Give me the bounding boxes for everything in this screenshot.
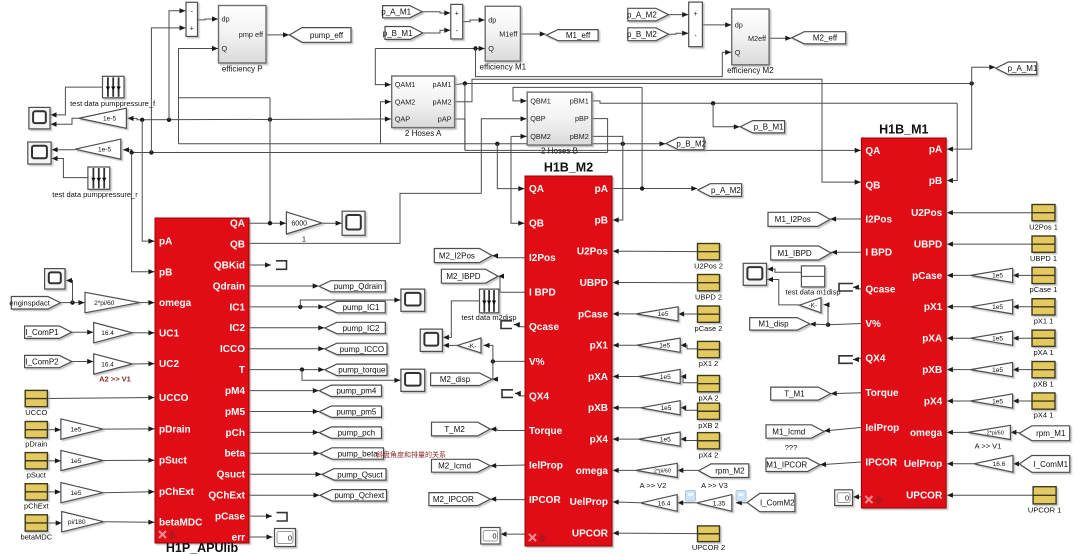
from enginspdact: [9, 297, 60, 310]
wire test data r to scope: [52, 156, 88, 178]
wire gain to pX1 M2: [613, 343, 637, 348]
svg-text:I_ComP1: I_ComP1: [25, 328, 59, 337]
constant UPCOR 1: [1033, 487, 1056, 504]
svg-text:A >> V3: A >> V3: [701, 481, 728, 490]
goto M2_Icmd: [432, 459, 491, 472]
svg-text:Q: Q: [222, 44, 228, 53]
svg-text:16.4: 16.4: [658, 500, 671, 507]
svg-text:Torque: Torque: [865, 388, 899, 399]
subsystem efficiency M1: [485, 6, 520, 61]
svg-text:pXA 1: pXA 1: [1033, 348, 1053, 357]
svg-text:6000: 6000: [291, 220, 307, 227]
svg-text:Qdrain: Qdrain: [213, 281, 245, 292]
gain 1e5 pX1 M2: [637, 338, 681, 352]
constant pCase 2: [698, 306, 720, 322]
svg-text:Qsuct: Qsuct: [217, 470, 246, 481]
gain 2*pi/60 M2: [636, 463, 678, 477]
svg-text:p_B_M1: p_B_M1: [754, 123, 784, 132]
scope IC1: [401, 289, 425, 311]
svg-text:V%: V%: [865, 319, 881, 330]
junction to QA M2: [495, 142, 499, 146]
svg-text:QB: QB: [865, 180, 880, 191]
svg-text:M2_eff: M2_eff: [813, 34, 838, 43]
svg-text:1e-5: 1e-5: [103, 116, 116, 123]
wire to goto M2_disp: [492, 361, 498, 381]
wire pXA 2 to gain: [680, 374, 697, 383]
badge signal conversion 2: [736, 491, 746, 502]
svg-text:pAM1: pAM1: [433, 80, 452, 89]
wire rpm_M2 to gain: [677, 468, 698, 473]
wire I_ComP1 to gain: [72, 330, 93, 335]
junction V percent M1: [826, 323, 830, 327]
svg-text:QBM2: QBM2: [530, 132, 551, 141]
scope pump pressure f: [29, 107, 50, 128]
svg-text:M1_Icmd: M1_Icmd: [772, 427, 805, 436]
svg-text:rpm_M1: rpm_M1: [1036, 429, 1066, 438]
constant pCase 1: [1032, 267, 1055, 283]
junction pA-net: [140, 118, 144, 122]
wire to Q of efficiency M1: [375, 48, 477, 50]
gain 1e5 pX4 M2: [639, 432, 681, 446]
svg-text:M1_IPCOR: M1_IPCOR: [766, 461, 807, 470]
junction V percent M2: [491, 359, 495, 363]
wire to sum minus: [169, 8, 186, 120]
svg-text:Q: Q: [735, 48, 741, 57]
wire err to display M1: [853, 494, 861, 499]
terminator QX4 M1: [839, 356, 853, 364]
svg-text:betaMDC: betaMDC: [159, 518, 202, 529]
svg-text:pXB 1: pXB 1: [1033, 379, 1053, 388]
svg-text:+: +: [190, 25, 194, 32]
svg-text:+: +: [694, 11, 698, 18]
wire pB-net horizontal: [132, 152, 608, 154]
display err pump: [275, 529, 296, 547]
wire m1disp to scope: [767, 267, 801, 273]
wire -K- to scope M1: [767, 277, 800, 305]
display err M2: [481, 528, 500, 545]
wire pX1 1 to gain: [1013, 304, 1032, 309]
svg-text:pump_beta: pump_beta: [338, 449, 379, 458]
svg-text:pX1: pX1: [590, 341, 609, 352]
gain 1e5 pSuct: [61, 450, 103, 470]
wire T to scope: [302, 370, 400, 383]
wire I_ComP2 to gain: [72, 359, 93, 364]
svg-text:dp: dp: [222, 15, 230, 24]
svg-text:M1_IBPD: M1_IBPD: [777, 249, 811, 258]
svg-text:pM5: pM5: [225, 407, 245, 418]
wire V percent M1: [828, 324, 861, 325]
wire gain to pDrain: [103, 426, 154, 431]
goto pump_pch: [319, 427, 381, 438]
svg-text:1e5: 1e5: [71, 426, 82, 433]
wire U2Pos 1 to port: [947, 210, 1032, 215]
scope engine speed: [45, 269, 65, 289]
goto T_M2: [432, 422, 491, 436]
wire pBM1 long: [592, 101, 957, 103]
svg-text:pChExt: pChExt: [24, 502, 50, 511]
goto pump_Qsuct: [322, 469, 386, 480]
svg-text:M2_IBPD: M2_IBPD: [446, 272, 480, 281]
wire gain to UC2: [132, 361, 154, 366]
gain -K- M2: [457, 338, 481, 353]
wire pChExt const to gain: [47, 489, 61, 494]
terminator pCase: [277, 513, 288, 521]
svg-text:2 Hoses A: 2 Hoses A: [405, 129, 442, 138]
svg-text:pX4 2: pX4 2: [699, 450, 719, 459]
gain 1.35 M2: [697, 495, 732, 512]
junction QA: [268, 221, 272, 225]
svg-text:QB: QB: [529, 219, 544, 230]
svg-text:UBPD: UBPD: [580, 278, 608, 289]
gain 6000: [286, 212, 321, 234]
scope torque: [401, 369, 425, 391]
gain 16.4 M2: [641, 495, 678, 512]
svg-text:2*pi/60: 2*pi/60: [94, 300, 115, 307]
svg-text:QAM2: QAM2: [395, 97, 416, 106]
svg-text:pB: pB: [595, 215, 608, 226]
from p_A_M2: [627, 8, 668, 21]
svg-text:IC1: IC1: [229, 302, 245, 313]
terminator Qcase M2: [501, 321, 512, 329]
goto pump_IC2: [325, 322, 386, 333]
gain pi/180 betaMDC: [62, 512, 104, 532]
wire pBP down to pB net: [592, 119, 608, 153]
gain 16.4 UC2: [94, 354, 133, 374]
svg-text:pXB: pXB: [588, 403, 608, 414]
svg-text:QX4: QX4: [865, 354, 885, 365]
wire into QB of H1B_M2: [511, 136, 524, 225]
sum block M2 efficiency: [689, 2, 703, 47]
goto M1_IPCOR: [766, 458, 820, 471]
svg-text:T_M1: T_M1: [784, 389, 805, 398]
svg-text:p_A_M2: p_A_M2: [627, 10, 657, 19]
wire Torque to goto T_M2: [490, 427, 525, 432]
subsystem 2 Hoses B: [527, 92, 592, 145]
svg-text:UC1: UC1: [159, 328, 179, 339]
constant pSuct: [25, 453, 47, 469]
svg-text:UPCOR: UPCOR: [906, 491, 943, 502]
wire betaMDC const to gain: [47, 520, 61, 525]
svg-text:pCase: pCase: [215, 512, 245, 523]
svg-text:1e5: 1e5: [992, 367, 1003, 374]
wire into gain 1e-5 f: [128, 116, 143, 121]
wire err to display M2: [501, 532, 526, 537]
goto pump_beta: [320, 448, 384, 459]
wire to goto p_B_M1: [713, 103, 740, 129]
svg-text:IelProp: IelProp: [865, 423, 899, 434]
wire Qdrain to goto: [249, 283, 319, 288]
gain 1e-5 forward: [79, 108, 127, 128]
constant pXB 2: [698, 403, 720, 419]
svg-text:0: 0: [288, 533, 292, 542]
svg-text:QA: QA: [529, 184, 544, 195]
goto M2_I2Pos: [434, 249, 492, 263]
wire gain 6000 to scope: [322, 221, 342, 226]
constant U2Pos 1: [1032, 205, 1055, 221]
wire test data f to scope: [51, 87, 103, 117]
svg-text:rpm_M2: rpm_M2: [715, 467, 745, 476]
svg-text:pXB: pXB: [922, 365, 942, 376]
svg-text:Qcase: Qcase: [529, 322, 559, 333]
wire to gain -K- M1: [824, 302, 830, 325]
gain -K- M1: [800, 298, 822, 313]
svg-text:pump_Qdrain: pump_Qdrain: [334, 282, 382, 291]
from rpm_M2: [699, 464, 749, 478]
constant pXB 1: [1032, 362, 1055, 378]
wire pmp eff to goto pump_eff: [266, 32, 289, 37]
svg-text:pCase: pCase: [912, 271, 942, 282]
wire gain to betaMDC: [104, 520, 155, 525]
svg-text:T: T: [239, 365, 245, 376]
wire Qsuct to goto: [249, 472, 322, 477]
svg-text:pmp eff: pmp eff: [239, 30, 264, 39]
svg-text:p_A_M1: p_A_M1: [381, 8, 411, 17]
wire QB of pump: [249, 193, 481, 243]
svg-text:pX4: pX4: [924, 396, 943, 407]
svg-text:pA: pA: [159, 236, 172, 247]
svg-text:M1_disp: M1_disp: [758, 320, 789, 329]
wire T to goto: [249, 367, 324, 372]
constant UCCO: [25, 390, 47, 406]
wire 16.4 to UelProp M2: [613, 500, 641, 505]
wire into QA of H1B_M2: [497, 144, 524, 191]
terminator QBKid: [276, 261, 287, 270]
svg-text:pChExt: pChExt: [159, 487, 195, 498]
gain 2*pi/60 M1: [968, 425, 1011, 439]
sum block pump efficiency: [186, 2, 198, 36]
wire Qcase to terminator M2: [514, 322, 525, 327]
wire QX4 to terminator M1: [853, 357, 862, 362]
wire UBPD 2 to port: [613, 280, 698, 285]
svg-text:UPCOR 2: UPCOR 2: [692, 543, 725, 552]
wire gain to pX4 M2: [613, 437, 639, 442]
subsystem H1B_M1: [861, 138, 946, 508]
svg-text:I_ComM2: I_ComM2: [760, 498, 795, 507]
wire pXA 1 to gain: [1013, 336, 1032, 341]
wire gain to UelProp M1: [947, 461, 974, 466]
wire into gain 1e-5 r: [123, 147, 132, 152]
from I_ComM2: [747, 493, 795, 511]
wire pXB 2 to gain: [680, 405, 697, 410]
svg-text:2 Hoses B: 2 Hoses B: [541, 146, 578, 155]
wire to gain -K- M2: [484, 343, 493, 362]
subsystem H1B_M2: [525, 176, 612, 546]
svg-text:pDrain: pDrain: [159, 424, 191, 435]
svg-text:pBM1: pBM1: [570, 97, 589, 106]
wire to sum plus: [151, 25, 185, 152]
wire IC1 to scope: [300, 297, 400, 307]
svg-text:U2Pos: U2Pos: [577, 247, 609, 258]
svg-text:pX1: pX1: [924, 302, 943, 313]
gain 1e5 pXA M1: [970, 331, 1012, 345]
wire gain 1e-5 r to scope: [52, 147, 76, 152]
svg-text:M2_I2Pos: M2_I2Pos: [439, 251, 475, 260]
svg-text:M2_Icmd: M2_Icmd: [438, 462, 471, 471]
svg-text:1.35: 1.35: [713, 500, 726, 507]
wire pA-net to QAP: [142, 116, 391, 121]
wire pA drop: [142, 120, 154, 244]
constant betaMDC: [25, 515, 47, 531]
wire QChExt to goto: [249, 493, 320, 498]
svg-text:H1B_M1: H1B_M1: [879, 123, 928, 137]
svg-text:pSuct: pSuct: [159, 456, 187, 467]
wire gain to omega M1: [947, 430, 968, 435]
svg-text:斜盘角度和排量的关系: 斜盘角度和排量的关系: [376, 450, 446, 459]
goto T_M1: [771, 387, 831, 400]
constant pX1 2: [698, 341, 720, 357]
svg-text:T_M2: T_M2: [444, 425, 465, 434]
svg-text:1e5: 1e5: [992, 304, 1003, 311]
svg-text:pA: pA: [595, 184, 608, 195]
goto pump_pm5: [319, 406, 381, 417]
svg-text:pump_IC2: pump_IC2: [343, 324, 380, 333]
wire to goto M1_disp: [810, 322, 828, 327]
wire beta to goto: [249, 451, 320, 456]
junction pA-net 2: [167, 118, 171, 122]
svg-text:UelProp: UelProp: [570, 497, 608, 508]
wire pX4 2 to gain: [680, 437, 697, 442]
svg-text:IPCOR: IPCOR: [865, 457, 897, 468]
svg-text:pB: pB: [929, 176, 942, 187]
svg-text:ICCO: ICCO: [220, 344, 245, 355]
svg-text:A >> V1: A >> V1: [975, 442, 1002, 451]
svg-text:test data pumppressure_f: test data pumppressure_f: [70, 99, 156, 108]
wire Qcase to terminator M1: [853, 285, 862, 290]
svg-text:pXA: pXA: [922, 334, 942, 345]
from I_ComP2: [25, 355, 72, 367]
wire pCase 2 to gain: [678, 311, 697, 316]
from p_B_M1: [383, 27, 423, 40]
wire pCase to terminator: [249, 514, 272, 519]
from-file test data m2disp: [480, 289, 499, 313]
constant UBPD 1: [1032, 236, 1055, 252]
wire UPCOR 1 to port: [947, 493, 1033, 498]
wire QX4 to terminator M2: [515, 391, 525, 396]
svg-text:1e5: 1e5: [992, 336, 1003, 343]
wire QBKid to terminator: [249, 262, 271, 267]
wire vertical x178: [178, 98, 180, 144]
svg-text:I BPD: I BPD: [865, 248, 892, 259]
wire I_ComM2 to gain 1.35: [736, 500, 747, 505]
wire gain to pXB M1: [947, 367, 971, 372]
svg-text:M2_IPCOR: M2_IPCOR: [433, 495, 474, 504]
svg-text:2*pi/60: 2*pi/60: [654, 468, 671, 474]
wire pAM1 long: [455, 84, 972, 85]
svg-text:M2eff: M2eff: [748, 34, 767, 43]
svg-text:pump_Qchext: pump_Qchext: [334, 491, 385, 500]
svg-text:p_A_M1: p_A_M1: [1008, 64, 1038, 73]
svg-text:pump_pch: pump_pch: [338, 428, 375, 437]
wire into QAM2: [381, 99, 391, 144]
wire gain to pXB M2: [613, 405, 641, 410]
svg-text:QX4: QX4: [529, 391, 549, 402]
subsystem 2 Hoses A: [392, 76, 455, 128]
wire I2Pos to goto M2_I2Pos: [492, 253, 525, 258]
wire gain to pCase M1: [947, 273, 971, 278]
goto M1_eff: [546, 30, 598, 41]
goto M2_eff: [792, 32, 846, 44]
svg-text:UelProp: UelProp: [904, 459, 942, 470]
gain 1e5 pX4 M1: [970, 394, 1012, 408]
wire pBM2 to pB of H1B_M2: [592, 136, 623, 222]
wire QB to QBP of 2 Hoses B: [481, 116, 526, 193]
gain 1e5 pChExt: [61, 483, 103, 503]
svg-text:M1_I2Pos: M1_I2Pos: [775, 215, 811, 224]
svg-text:efficiency M1: efficiency M1: [480, 62, 527, 71]
wire to pB of H1B_M1: [947, 103, 957, 183]
constant pX4 1: [1032, 393, 1055, 409]
junction pAM1 drop: [463, 81, 467, 85]
junction pBM1: [711, 101, 715, 105]
scope QA: [342, 211, 365, 235]
scope pump pressure r: [28, 142, 51, 164]
svg-text:IelProp: IelProp: [529, 460, 563, 471]
gain 1e5 pX1 M1: [970, 300, 1012, 314]
svg-text:pCase: pCase: [578, 309, 608, 320]
wire -K- to scope M2: [443, 343, 457, 348]
goto pump_ICCO: [325, 343, 387, 354]
svg-text:1e-5: 1e-5: [98, 146, 111, 153]
wire IPCOR to goto M2_IPCOR: [490, 497, 525, 502]
wire p_B_M2 to sum: [669, 31, 689, 36]
svg-text:QChExt: QChExt: [208, 491, 245, 502]
svg-text:pX1 1: pX1 1: [1034, 317, 1054, 326]
from p_A_M1: [381, 6, 422, 18]
svg-text:pB: pB: [159, 268, 172, 279]
wire pB drop: [132, 153, 155, 275]
wire UPCOR 2 to port: [613, 531, 698, 536]
wire gain to omega: [140, 300, 155, 305]
svg-text:beta: beta: [224, 449, 245, 460]
wire gain to pChExt: [103, 489, 154, 494]
wire I2Pos to goto M1_I2Pos: [830, 216, 861, 221]
svg-text:UCCO: UCCO: [25, 408, 47, 417]
svg-text:I_ComP2: I_ComP2: [25, 357, 59, 366]
svg-text:16.4: 16.4: [101, 361, 114, 368]
svg-text:efficiency M2: efficiency M2: [727, 66, 774, 75]
wire arrow Q effM1: [471, 46, 485, 51]
wire into QBM1: [513, 87, 642, 103]
subsystem efficiency M2: [732, 9, 769, 65]
from-file test data pumppressure_f: [103, 76, 125, 98]
wire gain to pX4 M1: [947, 398, 971, 403]
svg-text:I2Pos: I2Pos: [865, 214, 892, 225]
goto M1_IBPD: [771, 246, 831, 260]
gain 1e5 pXA M2: [639, 369, 681, 383]
wire sum to dp efficiency M1: [463, 17, 485, 22]
gain 1e5 pXB M2: [641, 401, 681, 415]
wire pX4 1 to gain: [1013, 398, 1032, 403]
goto pump_IC1: [325, 301, 386, 312]
svg-text:pCase 1: pCase 1: [1030, 285, 1058, 294]
svg-text:1e5: 1e5: [992, 273, 1003, 280]
svg-text:QBKid: QBKid: [214, 260, 245, 271]
wire pM5 to goto: [249, 409, 319, 414]
terminator QX4 M2: [502, 390, 513, 398]
wire QA to Q of efficiency P: [179, 46, 271, 98]
wire pAM2 to QB of H1B_M1: [455, 79, 861, 184]
wire M1eff to goto M1_eff: [520, 31, 545, 36]
svg-text:pump_pm4: pump_pm4: [336, 387, 377, 396]
junction pA M2: [640, 186, 644, 190]
svg-text:pX4: pX4: [590, 435, 609, 446]
goto pump_Qdrain: [319, 281, 385, 292]
svg-text:pA: pA: [929, 145, 942, 156]
svg-text:pump_ICCO: pump_ICCO: [340, 345, 384, 354]
svg-text:pX4 1: pX4 1: [1034, 411, 1054, 420]
svg-text:16.6: 16.6: [993, 461, 1006, 468]
goto p_A_M2: [698, 184, 742, 197]
